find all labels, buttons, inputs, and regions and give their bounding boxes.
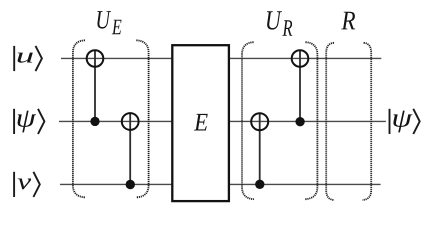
dotted bracket ) of U_R bbox=[305, 42, 318, 199]
dotted bracket ( of U_E bbox=[73, 40, 85, 197]
label U_R bbox=[267, 11, 292, 35]
dotted bracket ) of U_E bbox=[136, 40, 148, 197]
wire q0 (|u> line) bbox=[61, 57, 381, 59]
CNOT 2 target on q1 bbox=[122, 113, 139, 130]
dotted bracket ) of R bbox=[362, 43, 371, 200]
dotted bracket ( of R bbox=[326, 43, 334, 200]
CNOT 2 control dot on q2 bbox=[126, 180, 135, 189]
CNOT 4 (U_R): vertical connector bbox=[299, 50, 301, 121]
label R bbox=[341, 12, 355, 30]
CNOT 1 target on q0 bbox=[87, 50, 104, 67]
CNOT 4 target on q0 bbox=[292, 50, 309, 67]
CNOT 3 control dot on q2 bbox=[255, 180, 264, 189]
wire q2 (|v> line) bbox=[60, 183, 381, 185]
channel box E bbox=[172, 45, 229, 201]
CNOT 1 (U_E): vertical connector bbox=[94, 50, 96, 121]
CNOT 3 (U_R): vertical connector bbox=[259, 113, 261, 184]
CNOT 2 (U_E): vertical connector bbox=[129, 113, 131, 184]
label U_E bbox=[97, 11, 121, 34]
wire q1 (|psi> line) bbox=[59, 120, 386, 122]
CNOT 4 control dot on q1 bbox=[295, 117, 304, 126]
ket |psi> label (output) bbox=[390, 109, 420, 134]
ket |u> label bbox=[14, 46, 42, 71]
ket |v> label bbox=[14, 172, 40, 197]
label E inside box bbox=[194, 114, 208, 131]
CNOT 1 control dot on q1 bbox=[90, 117, 99, 126]
ket |psi> label (input) bbox=[14, 109, 44, 134]
dotted bracket ( of U_R bbox=[242, 42, 254, 199]
CNOT 3 target on q1 bbox=[251, 113, 268, 130]
